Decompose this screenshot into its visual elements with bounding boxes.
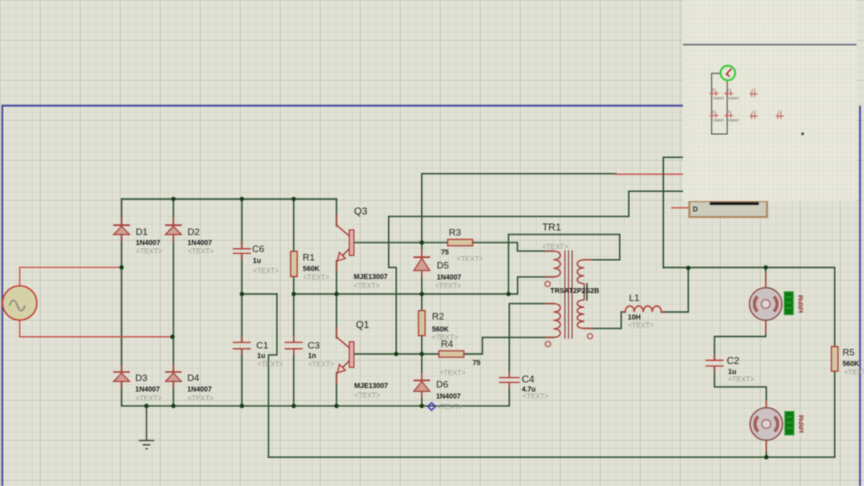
wire top rail — [122, 198, 337, 200]
node AC bottom junction — [170, 335, 174, 339]
svg-text:<TEXT>: <TEXT> — [188, 249, 214, 256]
svg-text:1N4007: 1N4007 — [713, 97, 724, 101]
capacitor C1 — [234, 341, 284, 369]
wire C2 bottom to motor2 — [715, 367, 767, 457]
node AC top junction — [119, 265, 123, 269]
wire mid rail left — [242, 293, 277, 295]
svg-text:<TEXT>: <TEXT> — [844, 369, 864, 376]
svg-text:<TEXT>: <TEXT> — [354, 283, 380, 290]
node motor2 bottom — [764, 455, 768, 459]
svg-text:<TEXT>: <TEXT> — [308, 362, 334, 369]
svg-text:D6: D6 — [436, 380, 448, 391]
svg-text:D4: D4 — [727, 110, 731, 114]
wire Q3 base line with R3 — [354, 243, 554, 252]
svg-text:1N4007: 1N4007 — [136, 240, 161, 247]
overlay mini labels row 2 — [712, 110, 782, 123]
svg-text:<TEXT>: <TEXT> — [440, 370, 466, 377]
wire Q3 emitter to mid rail — [336, 261, 338, 294]
node D5 base junction — [420, 240, 424, 244]
red pin stubs — [122, 214, 767, 452]
svg-text:D3: D3 — [135, 373, 147, 384]
wire D display red stub — [672, 207, 689, 209]
wire top 174 red to overlay — [615, 173, 684, 175]
svg-text:<TEXT>: <TEXT> — [437, 404, 463, 411]
svg-text:R1: R1 — [303, 253, 315, 264]
wire primary1 bottom to mid — [509, 277, 554, 294]
wire secondary bottom to L1 — [584, 312, 625, 328]
svg-text:<TEXT>: <TEXT> — [253, 268, 279, 275]
svg-text:1N4007: 1N4007 — [728, 97, 739, 101]
svg-text:L1: L1 — [629, 293, 640, 304]
svg-text:R5: R5 — [843, 348, 855, 359]
svg-text:10H: 10H — [628, 314, 641, 321]
svg-text:1n: 1n — [308, 353, 316, 360]
sheet blue border — [2, 106, 683, 486]
svg-text:R3: R3 — [449, 227, 461, 238]
node motor1 top — [764, 265, 768, 269]
wire AC source top red — [20, 267, 122, 286]
wire C1 column — [241, 294, 243, 406]
overlay tiny dot — [801, 133, 803, 135]
svg-text:kRPM: kRPM — [799, 415, 806, 433]
capacitor C4 — [500, 375, 549, 401]
svg-text:Q1: Q1 — [356, 320, 370, 331]
svg-text:<TEXT>: <TEXT> — [457, 256, 483, 263]
wire D5 R2 D6 column — [421, 174, 423, 406]
svg-text:<TEXT>: <TEXT> — [136, 396, 162, 403]
node C6 top — [240, 197, 244, 201]
capacitor C2 — [706, 356, 754, 383]
wire mid rail jog down to bottom feed — [269, 294, 277, 457]
transistor Q3 — [337, 207, 388, 291]
resistor R1 — [291, 251, 330, 281]
node mid rail C3 — [292, 292, 296, 296]
wire Q3 collector column — [336, 199, 338, 226]
svg-text:MJE13007: MJE13007 — [354, 383, 388, 390]
svg-text:D5: D5 — [437, 261, 449, 272]
wire Q1 emitter to bottom rail — [336, 373, 338, 406]
blue origin marker — [428, 403, 436, 411]
wire C6 column — [241, 199, 243, 294]
diode D1 — [113, 225, 162, 255]
svg-text:<TEXT>: <TEXT> — [257, 362, 283, 369]
node bottom rail Q1 — [334, 404, 338, 408]
svg-text:560K: 560K — [843, 361, 860, 368]
svg-text:TR1: TR1 — [542, 223, 561, 234]
motor M2 — [750, 408, 806, 441]
svg-text:1u: 1u — [728, 369, 736, 376]
svg-text:1N4007: 1N4007 — [713, 119, 724, 123]
wire Q3 base network vertical — [389, 216, 397, 354]
node R2 D6 base junction — [420, 352, 424, 356]
overlay mini component row 2 — [710, 113, 784, 119]
wire bottom rail — [122, 405, 510, 407]
node L1 motor rail — [686, 266, 690, 270]
svg-text:C1: C1 — [256, 341, 268, 352]
svg-text:C2: C2 — [778, 110, 782, 114]
svg-text:D3: D3 — [712, 110, 716, 114]
wire R5 bottom — [834, 371, 836, 457]
svg-text:560K: 560K — [303, 266, 320, 273]
svg-text:C3: C3 — [752, 110, 756, 114]
svg-text:4.7u: 4.7u — [522, 386, 536, 393]
diode D5 — [414, 257, 462, 290]
svg-text:kRPM: kRPM — [798, 295, 805, 313]
node bottom rail C1 — [240, 404, 244, 408]
wire R1 column — [293, 199, 295, 294]
node R1 top — [292, 197, 296, 201]
transistor Q1 — [337, 320, 388, 399]
wire mid rail right — [294, 293, 509, 295]
inductor L1 — [625, 293, 661, 330]
wire secondary series link — [586, 284, 588, 300]
node D2 top — [171, 197, 175, 201]
wire motor1 pins — [715, 268, 766, 360]
diode D2 — [165, 225, 214, 255]
svg-text:TRSAT2P2S2B: TRSAT2P2S2B — [550, 288, 599, 295]
diode D3 — [113, 372, 161, 403]
diode D4 — [165, 372, 213, 403]
capacitor C6 — [234, 244, 279, 275]
svg-text:D1: D1 — [136, 227, 148, 238]
svg-text:1u: 1u — [253, 258, 261, 265]
wire L1 to motor rail — [661, 269, 688, 312]
resistor R5 — [831, 347, 864, 377]
wire motor top rail — [663, 268, 834, 347]
node bottom rail C3 — [292, 404, 296, 408]
wire Q1 base line — [354, 353, 439, 355]
wire R4 to transformer — [464, 337, 554, 354]
diode D6 — [414, 380, 463, 412]
svg-text:Q3: Q3 — [354, 207, 368, 218]
wire center tap to secondary top — [509, 234, 620, 294]
resistor R4 — [439, 339, 481, 377]
svg-text:C4: C4 — [522, 375, 535, 386]
svg-text:C6: C6 — [252, 244, 264, 255]
svg-text:<TEXT>: <TEXT> — [136, 249, 162, 256]
AC source V1 — [3, 286, 37, 320]
motor M1 — [749, 288, 805, 321]
node mid rail Q — [334, 292, 338, 296]
svg-text:75: 75 — [473, 360, 481, 367]
svg-text:R4: R4 — [441, 339, 453, 350]
svg-text:R2: R2 — [432, 312, 444, 323]
svg-text:C3: C3 — [308, 341, 320, 352]
wire AC source bottom red — [20, 320, 173, 337]
svg-text:1N4007: 1N4007 — [728, 119, 739, 123]
node bottom rail D4 — [171, 404, 175, 408]
node bottom rail ground — [144, 404, 148, 408]
display D — [689, 201, 767, 217]
transformer TR1 — [542, 223, 599, 347]
svg-text:<TEXT>: <TEXT> — [435, 283, 461, 290]
svg-text:1N4007: 1N4007 — [437, 275, 462, 282]
overlay mini component row 1 — [710, 91, 758, 97]
svg-text:<TEXT>: <TEXT> — [303, 274, 329, 281]
wire bridge column D2 D4 — [172, 199, 174, 406]
overlay AC source selected — [721, 66, 736, 81]
wire top 173 rail — [422, 173, 616, 175]
wire C3 column — [293, 294, 295, 406]
wire C4 branch — [509, 304, 553, 406]
node mid rail transformer tap — [506, 292, 510, 296]
svg-text:75: 75 — [441, 250, 449, 257]
wire bridge column D1 D3 — [121, 199, 123, 406]
svg-text:<TEXT>: <TEXT> — [188, 396, 214, 403]
node Q1 base junction — [394, 352, 398, 356]
svg-text:D4: D4 — [187, 373, 199, 384]
svg-text:D2: D2 — [727, 88, 731, 92]
svg-text:1N4007: 1N4007 — [135, 386, 160, 393]
node bottom rail D6 — [420, 404, 424, 408]
overlay sheet border line — [683, 44, 857, 46]
wire bottom feed rail — [269, 456, 835, 458]
overlay wire loop — [712, 73, 728, 134]
node mid rail C1 — [240, 292, 244, 296]
svg-text:D2: D2 — [188, 227, 200, 238]
node mid rail R2 — [420, 292, 424, 296]
capacitor C3 — [285, 341, 334, 369]
svg-text:C1: C1 — [752, 88, 756, 92]
overlay mini labels row 1 — [712, 88, 756, 101]
svg-text:1N4007: 1N4007 — [187, 386, 212, 393]
svg-text:1N4007: 1N4007 — [188, 240, 213, 247]
svg-text:C2: C2 — [727, 356, 740, 367]
ground — [139, 406, 154, 449]
svg-text:D: D — [693, 207, 698, 214]
resistor R3 — [441, 227, 483, 263]
svg-text:1u: 1u — [257, 353, 265, 360]
svg-text:MJE13007: MJE13007 — [354, 274, 388, 281]
wire rail 216 to overlay — [389, 191, 684, 216]
svg-text:1N4007: 1N4007 — [436, 394, 461, 401]
svg-text:<TEXT>: <TEXT> — [728, 376, 754, 383]
svg-text:<TEXT>: <TEXT> — [523, 394, 549, 401]
svg-text:D1: D1 — [712, 88, 716, 92]
wire Q1 collector column — [336, 294, 338, 338]
svg-text:<TEXT>: <TEXT> — [628, 323, 654, 330]
resistor R2 — [419, 311, 459, 342]
wire 157 stub to overlay — [663, 157, 683, 267]
svg-text:<TEXT>: <TEXT> — [354, 392, 380, 399]
svg-text:560K: 560K — [432, 326, 449, 333]
svg-text:<TEXT>: <TEXT> — [542, 244, 568, 251]
